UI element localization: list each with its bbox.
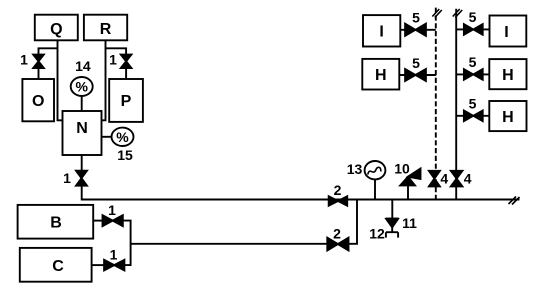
svg-text:5: 5: [469, 9, 477, 25]
svg-text:%: %: [75, 79, 88, 95]
wire B to valve: [93, 220, 102, 222]
svg-text:C: C: [52, 258, 64, 275]
svg-text:N: N: [76, 120, 88, 137]
funnel 12: [386, 232, 398, 237]
wire riser to valve 5 (H right bottom): [456, 115, 489, 117]
svg-text:15: 15: [117, 147, 133, 163]
gauge 15: [112, 128, 134, 146]
valve 5 (I left): [405, 24, 426, 36]
wire C to valve: [92, 264, 105, 266]
svg-text:10: 10: [394, 161, 410, 177]
wire riser to valve 5 (H right mid): [456, 73, 489, 75]
wire I-left to valve 5: [400, 29, 436, 31]
valve 4 (solid riser): [451, 171, 463, 187]
wire N to gauge 15: [102, 136, 112, 138]
wire N outlet down to main header: [82, 186, 520, 200]
dashed riser: [435, 8, 437, 200]
pipe break (dashed riser top): [432, 9, 442, 18]
svg-text:2: 2: [333, 226, 341, 242]
svg-text:%: %: [116, 129, 129, 145]
tank I (right): [490, 16, 527, 47]
svg-text:1: 1: [20, 52, 28, 68]
valve 2 (lower): [327, 238, 348, 251]
svg-text:1: 1: [63, 170, 71, 186]
wire riser to valve 5 (I right): [456, 28, 489, 30]
svg-text:H: H: [375, 67, 387, 84]
wire gauge 14 to N: [81, 96, 83, 111]
svg-text:4: 4: [440, 170, 448, 186]
valve 5 (I right): [464, 24, 483, 35]
tank O: [22, 79, 54, 121]
gauge 13: [365, 161, 386, 179]
svg-text:4: 4: [464, 170, 472, 186]
valve 4 (dashed riser): [429, 171, 440, 187]
tank C: [20, 248, 92, 282]
tank R: [84, 15, 127, 41]
tank I (left): [363, 15, 400, 46]
svg-text:12: 12: [369, 226, 385, 242]
valve 2 (upper, on header): [329, 196, 348, 205]
valve 5 (H right bottom): [464, 111, 483, 122]
tank P: [109, 79, 143, 122]
svg-text:1: 1: [108, 202, 116, 218]
svg-text:11: 11: [402, 215, 417, 231]
svg-text:Q: Q: [50, 21, 62, 38]
tank H (right bottom): [489, 101, 526, 131]
valve 5 (H right mid): [464, 69, 483, 80]
tank H (right mid): [489, 59, 526, 89]
svg-text:14: 14: [75, 58, 91, 74]
valve 5 (H left): [405, 69, 426, 81]
svg-text:1: 1: [110, 247, 118, 263]
svg-text:P: P: [121, 93, 132, 110]
tank N: [63, 111, 102, 155]
wire N bottom to valve: [81, 155, 83, 171]
solid riser: [455, 9, 457, 200]
wire R to N: [102, 40, 106, 120]
pipe break (header right end): [509, 197, 520, 205]
svg-text:O: O: [32, 93, 44, 110]
svg-text:H: H: [502, 109, 514, 126]
tank Q: [35, 15, 78, 41]
pipe break (solid riser top): [453, 9, 463, 18]
wire Q branch to valve O: [39, 48, 58, 79]
svg-text:2: 2: [334, 182, 342, 198]
wire Q to N: [58, 40, 63, 120]
valve 1 (O inlet): [33, 55, 44, 68]
wire R branch to valve P: [106, 48, 127, 79]
wire gauge 13 to header: [374, 179, 376, 199]
svg-text:5: 5: [412, 55, 420, 71]
relief valve 10: [400, 169, 420, 186]
svg-text:13: 13: [347, 161, 363, 177]
valve 1 (N outlet): [76, 171, 87, 186]
svg-text:H: H: [502, 67, 514, 84]
valve 11 (drain): [386, 219, 399, 232]
svg-text:1: 1: [109, 52, 117, 68]
svg-text:B: B: [50, 215, 62, 232]
wire drain stem: [391, 200, 393, 219]
gauge 14: [71, 77, 93, 96]
wire H-left to valve 5: [399, 74, 436, 76]
wire relief valve 10 to header: [407, 185, 409, 199]
wire B/C manifold: [123, 221, 327, 266]
wire lower branch to header: [349, 200, 358, 244]
valve 1 (C outlet): [104, 260, 124, 271]
tank B: [18, 205, 94, 239]
svg-text:5: 5: [469, 96, 477, 112]
valve 1 (P inlet): [121, 55, 132, 68]
svg-text:5: 5: [412, 10, 420, 26]
svg-text:I: I: [379, 24, 383, 41]
svg-text:I: I: [504, 24, 508, 41]
svg-text:R: R: [100, 21, 112, 38]
tank H (left): [362, 59, 399, 90]
svg-text:5: 5: [469, 54, 477, 70]
valve 1 (B outlet): [103, 215, 123, 226]
